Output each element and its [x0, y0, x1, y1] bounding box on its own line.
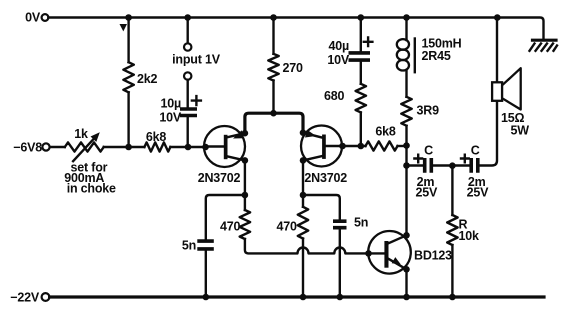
node 680 bottom [358, 143, 365, 150]
wire R 10k upper [451, 166, 453, 215]
-6V8 terminal [42, 143, 49, 150]
svg-text:3R9: 3R9 [417, 104, 440, 118]
svg-text:270: 270 [283, 61, 304, 75]
0V terminal [42, 14, 49, 21]
transistor Q1 2N3702 [204, 126, 245, 167]
wire 470 right to -22V rail [302, 239, 304, 298]
wire C1 to node [433, 164, 469, 166]
node 270 top [270, 14, 277, 21]
node BD123 emitter [403, 266, 410, 273]
ground [530, 40, 558, 51]
-22V terminal [42, 293, 50, 301]
loudspeaker 15ohm 5W [492, 68, 521, 109]
svg-text:6k8: 6k8 [375, 125, 396, 139]
transistor Q2 2N3702 [301, 126, 343, 167]
capacitor C1 2m plates [425, 158, 432, 173]
resistor 3R9 [401, 97, 411, 126]
node output at cap row [403, 162, 410, 169]
svg-text:10V: 10V [327, 53, 350, 67]
input terminal lower [184, 72, 191, 79]
wire node to 5n left [206, 195, 245, 239]
svg-text:40µ: 40µ [328, 39, 349, 53]
wire 3R9 to cap node [405, 126, 407, 236]
svg-text:−6V8: −6V8 [13, 141, 42, 155]
wire 270 to emitter bar [272, 81, 274, 113]
svg-text:470: 470 [220, 220, 241, 234]
wire speaker column from rail [496, 18, 498, 83]
node speaker at rail [494, 14, 501, 21]
node Q2 base [339, 143, 346, 150]
node Q1 emitter [242, 130, 249, 137]
emitter tie bar [245, 113, 303, 133]
svg-text:0V: 0V [25, 11, 41, 25]
node R at rail [449, 294, 456, 301]
node Q1 base [202, 144, 209, 151]
node Q2 collector net [300, 192, 307, 199]
svg-text:2k2: 2k2 [137, 72, 158, 86]
pot wiper arrow [73, 137, 95, 161]
resistor 6k8 right [366, 141, 398, 150]
svg-text:10µ: 10µ [160, 97, 181, 111]
resistor R 10k [447, 215, 457, 245]
svg-text:C: C [471, 144, 480, 158]
plus sign 10u [192, 96, 201, 105]
svg-text:1k: 1k [74, 127, 88, 141]
svg-text:2N3702: 2N3702 [304, 171, 347, 185]
node 5n left at rail [203, 294, 210, 301]
-22V bottom rail wire [50, 295, 544, 298]
plus sign C2 [461, 155, 469, 163]
inductor choke 150mH [397, 39, 415, 73]
wire 2k2 column lower [127, 92, 129, 147]
svg-text:5W: 5W [511, 124, 530, 138]
svg-text:in choke: in choke [67, 182, 116, 196]
wire Q2 base to 6k8 [343, 145, 366, 147]
node Q1 collector [242, 157, 249, 164]
wire choke column from rail [405, 18, 407, 41]
resistor 470 left [244, 195, 246, 210]
wire BD123 emitter to -22V rail [405, 269, 407, 297]
wire 270 column upper [272, 18, 274, 54]
plus sign C1 [414, 155, 422, 163]
node 2k2 bottom [125, 144, 132, 151]
wire 2k2 column upper [127, 18, 129, 63]
svg-text:2R45: 2R45 [422, 49, 451, 63]
potentiometer 1k [65, 142, 104, 151]
wire 5n left to -22V rail [205, 251, 207, 297]
0V top rail wire [48, 18, 543, 39]
svg-text:C: C [424, 144, 433, 158]
node choke top [403, 14, 410, 21]
wire R 10k lower [451, 245, 453, 297]
node 10u bottom [185, 144, 192, 151]
resistor 6k8 left [144, 142, 170, 151]
wire 6k8 to output column [398, 145, 407, 147]
wire input to 10u [186, 80, 188, 107]
wire Q2 collector down [302, 160, 304, 195]
node BD123 base [365, 250, 372, 257]
capacitor 10u plates [180, 109, 197, 116]
wire input drop [186, 18, 188, 44]
wire 470 left to BD123 base with hops [245, 239, 369, 253]
svg-text:BD123: BD123 [414, 249, 452, 263]
capacitor 5n left plates [197, 241, 214, 249]
wire cap row left [407, 164, 423, 166]
wire node to 5n right [303, 195, 340, 219]
input terminal upper [184, 43, 191, 50]
node 5n right at rail [337, 294, 344, 301]
svg-text:25V: 25V [467, 186, 490, 200]
resistor 680 [356, 84, 366, 113]
svg-text:2N3702: 2N3702 [198, 171, 241, 185]
capacitor C2 2m plates [471, 158, 478, 173]
node Q1 collector net [242, 192, 249, 199]
svg-text:470: 470 [277, 220, 298, 234]
wire 5n right to -22V rail [339, 230, 341, 297]
node output column / 6k8 [403, 142, 410, 149]
wire Q1 collector down [244, 160, 246, 195]
node between caps [449, 162, 456, 169]
wire 10u to -6V8 rail [186, 118, 188, 148]
transistor Q3 BD123 [368, 231, 411, 274]
svg-text:10k: 10k [459, 229, 480, 243]
svg-text:6k8: 6k8 [146, 130, 167, 144]
capacitor 5n right plates [333, 221, 347, 228]
resistor 470 right [302, 195, 304, 207]
wire 6k8 to Q1 base [170, 146, 204, 148]
wire C2 to speaker column [480, 101, 497, 166]
wire choke to 3R9 [405, 70, 407, 96]
current arrow at top of 2k2 branch [120, 24, 128, 31]
plus sign 40u [364, 38, 373, 47]
capacitor 40u plates [349, 53, 371, 60]
node Q2 emitter [300, 129, 307, 136]
svg-text:5n: 5n [182, 239, 196, 253]
node BD123 collector [403, 232, 410, 239]
svg-text:10V: 10V [159, 111, 182, 125]
svg-text:25V: 25V [415, 186, 438, 200]
node top of 2k2 [125, 14, 132, 21]
wire 680 to rail [360, 112, 362, 146]
wire -6V8 to 1k [50, 146, 65, 148]
node 270 at bar [270, 110, 277, 117]
resistor 270 [268, 54, 278, 81]
node 40u top [358, 14, 365, 21]
node input at rail [184, 14, 191, 21]
node 470 right at rail [300, 294, 307, 301]
wire 40u column from rail [360, 18, 362, 52]
wire 40u to 680 [360, 60, 362, 84]
node Q2 collector [300, 157, 307, 164]
node BD123 at rail [403, 294, 410, 301]
svg-text:5n: 5n [354, 216, 368, 230]
svg-text:680: 680 [324, 89, 345, 103]
set for 900mA in choke note [64, 161, 116, 196]
svg-text:−22V: −22V [10, 291, 40, 305]
wire 1k to 6k8 [104, 146, 145, 148]
svg-text:input 1V: input 1V [172, 53, 221, 67]
resistor 2k2 [123, 62, 133, 92]
